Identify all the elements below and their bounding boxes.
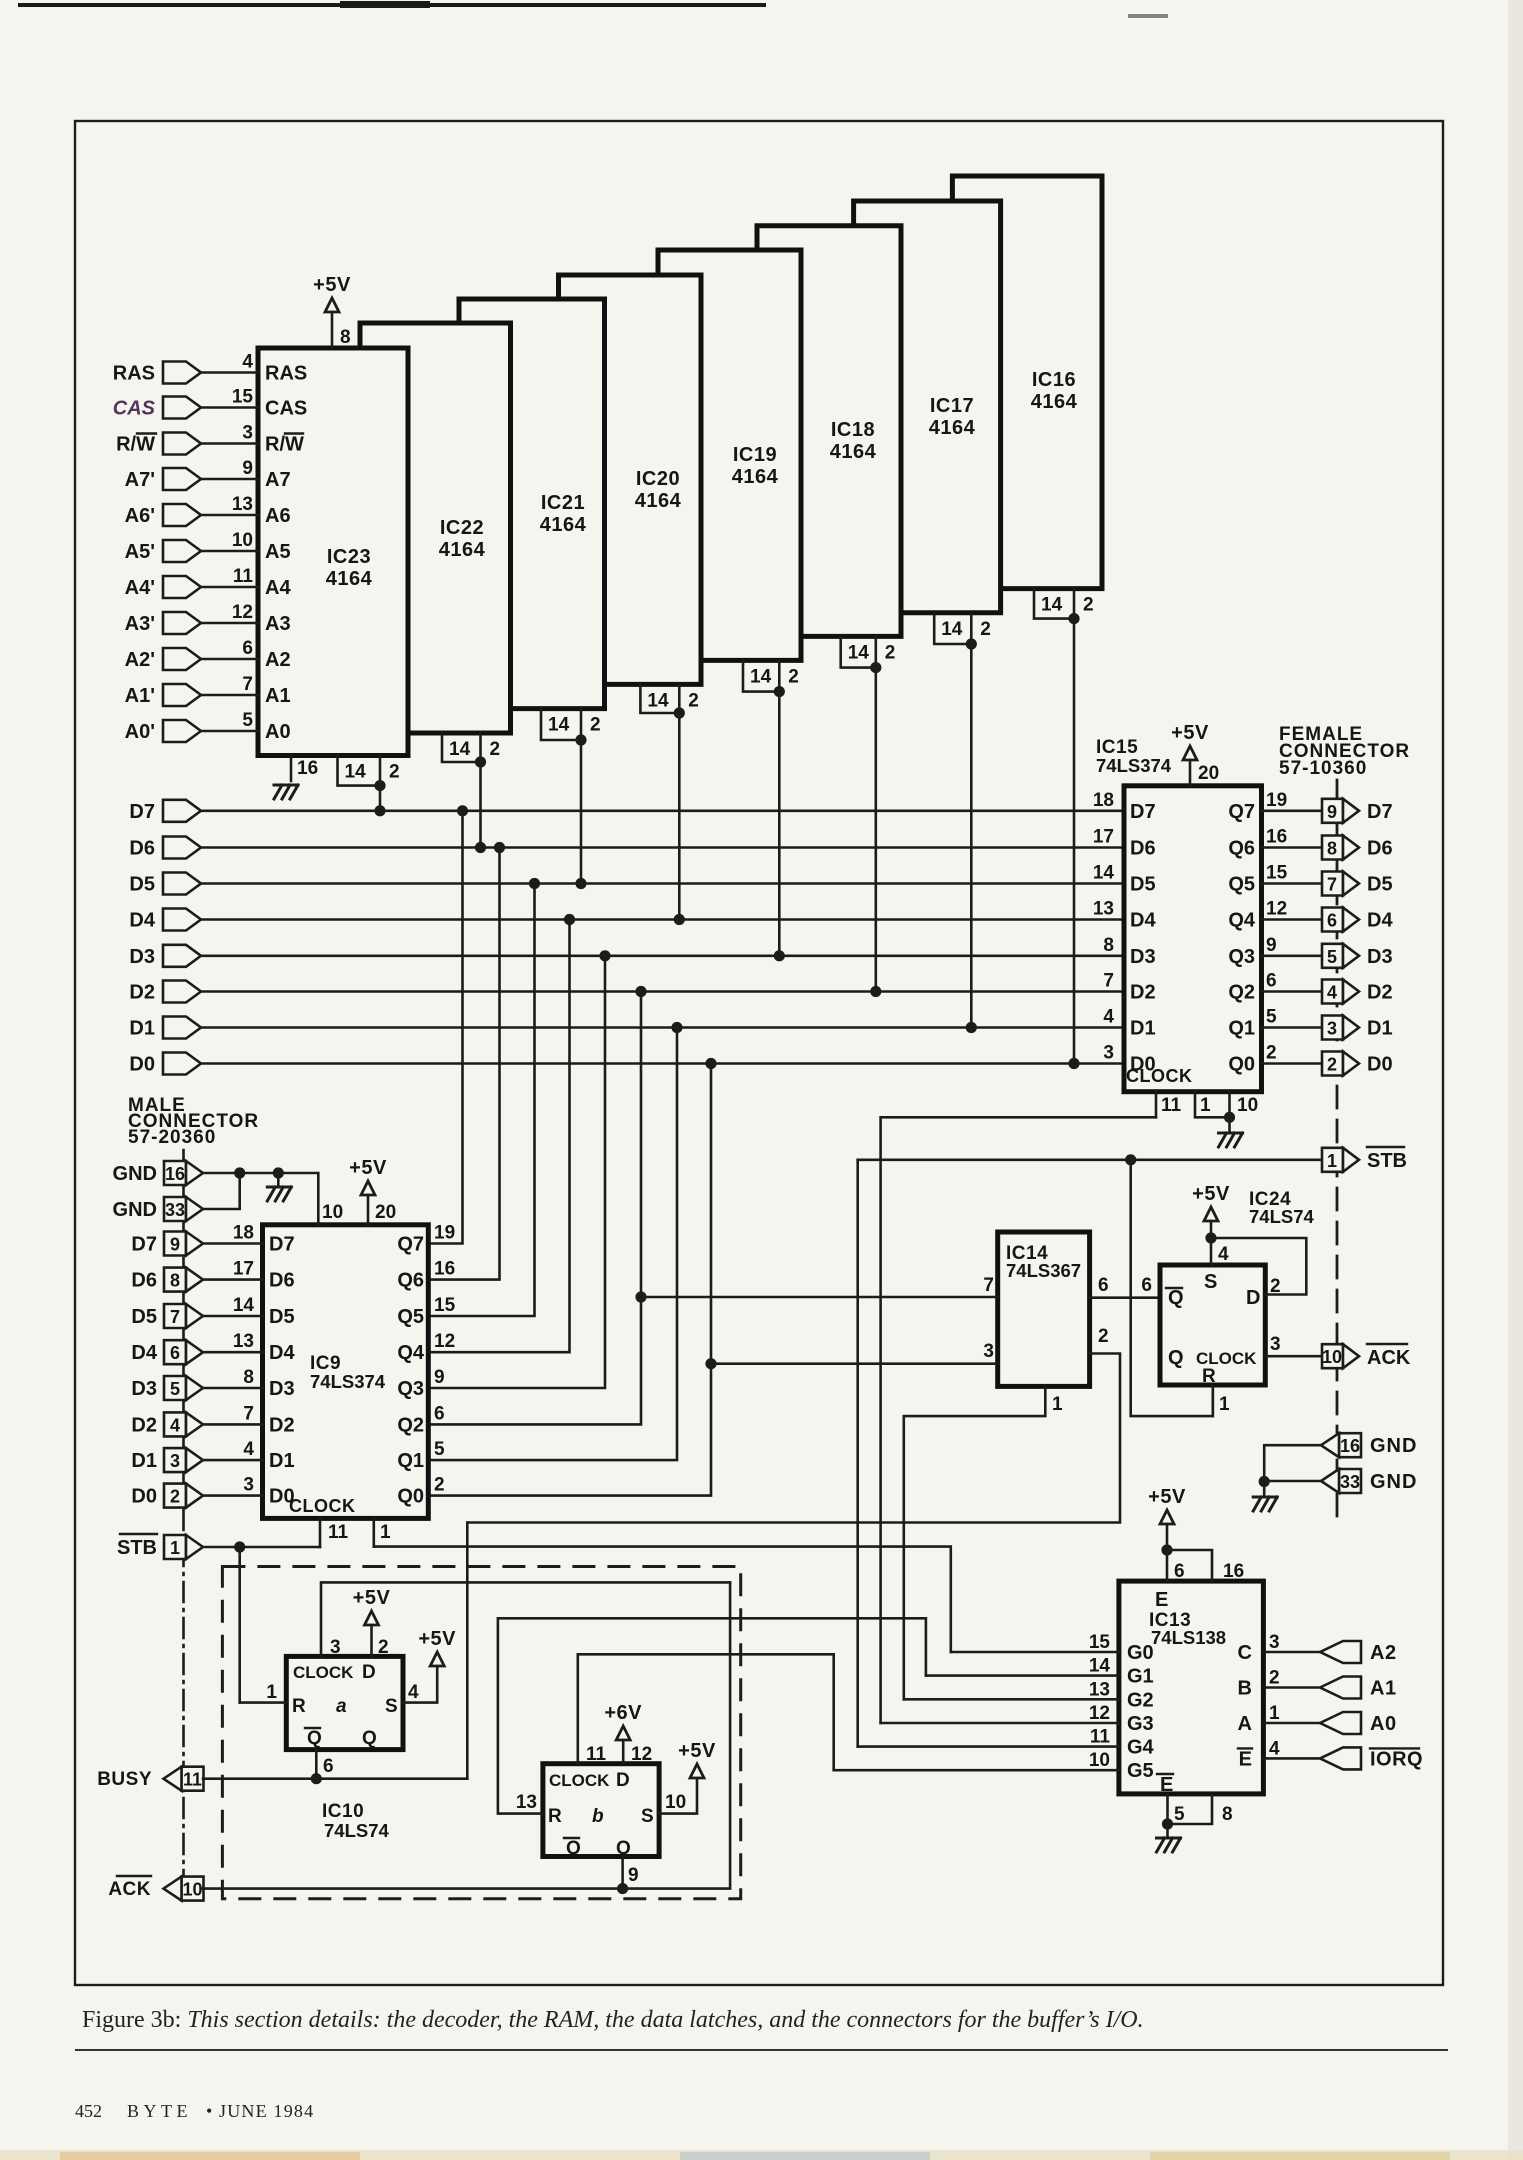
svg-text:13: 13 (232, 494, 253, 515)
wire IC13 G2 line (904, 1698, 1119, 1701)
svg-text:D3: D3 (1367, 946, 1393, 968)
wire A3' to IC23 (201, 622, 258, 625)
svg-text:12: 12 (631, 1744, 652, 1765)
svg-text:D4: D4 (1367, 910, 1393, 932)
input arrow A3' (163, 612, 201, 634)
svg-text:RAS: RAS (265, 363, 307, 385)
svg-text:17: 17 (233, 1259, 254, 1280)
+5V supply IC10b S pin 10 (690, 1764, 704, 1778)
svg-text:D4: D4 (131, 1342, 157, 1364)
svg-text:G3: G3 (1127, 1713, 1154, 1735)
svg-text:20: 20 (375, 1202, 396, 1223)
svg-text:A2: A2 (265, 649, 291, 671)
svg-text:D6: D6 (131, 1270, 157, 1292)
svg-text:6: 6 (1327, 911, 1337, 931)
svg-text:b: b (592, 1806, 604, 1827)
svg-text:12: 12 (1266, 899, 1287, 920)
wire A4' to IC23 (201, 586, 258, 589)
svg-text:7: 7 (243, 1403, 254, 1424)
junction dot Q/ACK (617, 1883, 628, 1894)
male connector arrow D4 pin 6 (164, 1340, 186, 1364)
svg-text:CAS: CAS (265, 398, 307, 420)
svg-text:4: 4 (242, 352, 253, 373)
wire RAS to IC23 (201, 371, 258, 374)
junction dot pin3/Q0 (705, 1358, 716, 1369)
svg-text:Q: Q (362, 1728, 377, 1749)
svg-text:GND: GND (113, 1163, 157, 1185)
+5V supply IC13 pins 6/16 (1160, 1510, 1174, 1524)
svg-text:A7: A7 (265, 469, 291, 491)
svg-text:16: 16 (1223, 1561, 1244, 1582)
IC18 data line junction dot (870, 986, 881, 997)
IC24 pin 1 reset stub (1212, 1385, 1215, 1416)
svg-text:R: R (548, 1806, 562, 1827)
svg-text:1: 1 (1327, 1151, 1337, 1171)
wire IC9 pin1 to IC13 G0 (374, 1547, 951, 1652)
input arrow A2' (163, 648, 201, 670)
svg-text:+5V: +5V (1171, 722, 1209, 744)
wire IC10a Qbar pin 6 to BUSY (315, 1750, 318, 1779)
female connector arrow D1 pin 3 (1322, 1016, 1343, 1040)
wire BUSY riser to IC14 pin2 net (466, 1523, 469, 1779)
IC19 pin 14 stub (743, 660, 779, 691)
female connector arrow STB pin 1 (1322, 1148, 1343, 1172)
svg-text:12: 12 (434, 1331, 455, 1352)
junction dot Q4/D4 (564, 914, 575, 925)
svg-text:8: 8 (340, 327, 351, 348)
connector arrow A0 (1320, 1712, 1361, 1734)
wire data bus D7 (201, 809, 1124, 812)
wire STB to IC9 clock (203, 1546, 320, 1549)
svg-text:14: 14 (233, 1295, 255, 1316)
junction dot Q1/D1 (671, 1022, 682, 1033)
svg-text:E: E (1239, 1748, 1252, 1770)
svg-text:A1: A1 (265, 685, 291, 707)
input arrow A1' (163, 684, 201, 706)
svg-text:74LS74: 74LS74 (324, 1820, 390, 1841)
wire A1' to IC23 (201, 694, 258, 697)
IC21 pin 14 stub (541, 709, 581, 740)
male connector arrow BUSY pin 11 (182, 1767, 204, 1791)
wire data bus D0 (201, 1062, 1124, 1065)
svg-text:D2: D2 (129, 982, 155, 1004)
female connector arrow D6 pin 8 (1322, 836, 1343, 860)
svg-text:7: 7 (242, 674, 253, 695)
svg-text:D0: D0 (131, 1486, 157, 1508)
svg-text:A: A (1238, 1713, 1252, 1735)
svg-text:4: 4 (243, 1439, 254, 1460)
buffer IC14 74LS367 (998, 1232, 1090, 1386)
svg-text:D3: D3 (269, 1378, 295, 1400)
IC21 data line junction dot (575, 878, 586, 889)
footer rule (75, 2049, 1448, 2051)
female connector arrow D4 pin 6 (1322, 908, 1343, 932)
svg-text:•: • (206, 2101, 212, 2121)
svg-text:9: 9 (1266, 935, 1277, 956)
svg-text:3: 3 (1269, 1632, 1280, 1653)
svg-text:20: 20 (1198, 763, 1219, 784)
svg-text:4: 4 (1218, 1244, 1229, 1265)
input arrow D4 (163, 909, 201, 931)
wire D6 to IC9 (203, 1278, 263, 1281)
male connector arrow D0 pin 2 (164, 1484, 186, 1508)
svg-text:19: 19 (1266, 790, 1287, 811)
wire D1 to IC9 (203, 1459, 263, 1462)
IC13 pin 8 tie (1168, 1794, 1213, 1824)
svg-text:14: 14 (941, 619, 963, 640)
svg-text:8: 8 (1222, 1804, 1233, 1825)
svg-text:Q6: Q6 (397, 1270, 424, 1292)
svg-text:12: 12 (1089, 1703, 1110, 1724)
male connector dash-dot boundary (182, 1150, 185, 1906)
svg-text:4164: 4164 (635, 490, 682, 512)
ground symbol IC23 pin 16 (274, 785, 298, 799)
svg-text:74LS374: 74LS374 (1096, 755, 1172, 776)
svg-text:D0: D0 (1367, 1054, 1393, 1076)
svg-text:+5V: +5V (418, 1628, 456, 1650)
latch IC9 74LS374 (263, 1225, 429, 1519)
wire IC15 Q0 to female connector (1262, 1062, 1323, 1065)
RAM IC17 4164 (854, 201, 1001, 613)
svg-text:BYTE: BYTE (127, 2101, 192, 2121)
svg-text:2: 2 (1083, 595, 1094, 616)
IC16 pin 14 stub (1034, 589, 1074, 619)
wire IC9 Q5 to D5 bus (428, 884, 534, 1317)
scan artifact bottom color strip (0, 2150, 1523, 2160)
IC23 pin 2 stub to data line (379, 756, 382, 811)
svg-text:A4': A4' (125, 577, 155, 599)
svg-text:2: 2 (1098, 1326, 1109, 1347)
svg-text:Q5: Q5 (1228, 874, 1255, 896)
svg-text:D7: D7 (129, 801, 155, 823)
svg-text:D6: D6 (1130, 838, 1156, 860)
svg-text:Q: Q (307, 1728, 322, 1749)
male connector arrow GND pin 33 (164, 1197, 186, 1221)
svg-text:Q6: Q6 (1228, 838, 1255, 860)
svg-text:14: 14 (647, 690, 669, 711)
svg-text:9: 9 (628, 1865, 639, 1886)
junction dot Q5/D5 (529, 878, 540, 889)
svg-text:A1': A1' (125, 685, 155, 707)
flip-flop IC10b 74LS74 (543, 1764, 659, 1859)
wire IC9 Q0 to D0 bus (428, 1064, 711, 1496)
svg-text:5: 5 (242, 710, 253, 731)
junction dot IC15 ground (1224, 1112, 1235, 1123)
svg-text:10: 10 (322, 1202, 343, 1223)
wire IC10a clock pin 3 to ACK net (321, 1582, 730, 1656)
IC20 pin junction dot (674, 707, 685, 718)
svg-text:A5': A5' (125, 541, 155, 563)
connector arrow A2 (1320, 1641, 1361, 1663)
svg-text:13: 13 (233, 1331, 254, 1352)
wire D0 to IC9 (203, 1494, 263, 1497)
svg-text:D1: D1 (131, 1450, 157, 1472)
svg-text:3: 3 (983, 1341, 994, 1362)
junction dot IC13 ground (1162, 1818, 1173, 1829)
svg-text:D1: D1 (269, 1450, 295, 1472)
IC17 pin 14 stub (934, 613, 971, 644)
wire D2 to IC9 (203, 1423, 263, 1426)
svg-text:Q4: Q4 (397, 1342, 425, 1364)
IC17 data line junction dot (966, 1022, 977, 1033)
svg-text:D4: D4 (269, 1342, 295, 1364)
IC15 pin 10 ground stub (1228, 1092, 1231, 1118)
male connector arrow STB pin 1 (164, 1535, 186, 1559)
male connector arrow D3 pin 5 (164, 1376, 186, 1400)
svg-text:CLOCK: CLOCK (293, 1663, 354, 1682)
wire IC13 G4 line (858, 1745, 1119, 1748)
svg-text:+5V: +5V (313, 274, 351, 296)
svg-text:6: 6 (242, 638, 253, 659)
svg-text:13: 13 (1093, 899, 1114, 920)
page border frame (75, 121, 1443, 1985)
wire IC13 B to A1 arrow (1263, 1686, 1320, 1689)
wire IC10b Q pin 9 to ACK (621, 1857, 624, 1889)
input arrow RAS (163, 362, 201, 384)
input arrow CAS (163, 397, 201, 419)
IC23 pin 14 stub (338, 756, 381, 786)
svg-text:9: 9 (170, 1235, 180, 1255)
IC16 pin junction dot (1068, 613, 1079, 624)
svg-text:74LS138: 74LS138 (1151, 1627, 1226, 1648)
wire GND16 to IC9 pin 10 (203, 1173, 318, 1225)
flip-flop IC10a 74LS74 (286, 1656, 403, 1749)
+5V supply arrow above IC23 pin 8 (325, 298, 339, 312)
ground symbol right GND (1263, 1482, 1266, 1496)
IC18 pin 2 stub to data line (874, 636, 877, 991)
svg-text:D0: D0 (129, 1054, 155, 1076)
svg-text:a: a (336, 1696, 347, 1717)
wire IC10b R pin 13 to IC13 G1 (498, 1618, 926, 1813)
svg-text:2: 2 (170, 1487, 180, 1507)
svg-text:4: 4 (1269, 1738, 1280, 1759)
svg-text:JUNE 1984: JUNE 1984 (219, 2101, 314, 2121)
svg-text:Q: Q (1168, 1347, 1184, 1369)
svg-text:13: 13 (1089, 1679, 1110, 1700)
IC21 pin junction dot (575, 734, 586, 745)
svg-text:18: 18 (233, 1223, 254, 1244)
ground symbol IC9 (277, 1173, 280, 1185)
svg-text:2: 2 (434, 1475, 445, 1496)
wire A0' to IC23 (201, 730, 258, 733)
svg-text:D7: D7 (1367, 801, 1393, 823)
svg-text:19: 19 (434, 1223, 455, 1244)
svg-text:Q2: Q2 (1228, 982, 1255, 1004)
svg-text:D3: D3 (129, 946, 155, 968)
junction dot IC24 S/D tie (1205, 1232, 1216, 1243)
svg-text:D7: D7 (269, 1234, 295, 1256)
wire IC15 Q5 to female connector (1262, 882, 1323, 885)
RAM IC22 4164 (360, 323, 511, 733)
wire GND33 join (203, 1173, 240, 1209)
svg-text:1: 1 (1052, 1394, 1063, 1415)
svg-text:4164: 4164 (326, 568, 373, 590)
IC16 data line junction dot (1068, 1058, 1079, 1069)
svg-text:C: C (1238, 1642, 1252, 1664)
svg-text:10: 10 (1089, 1750, 1110, 1771)
svg-text:11: 11 (328, 1522, 349, 1543)
IC23 pin junction dot (374, 780, 385, 791)
svg-text:A0: A0 (1370, 1713, 1397, 1735)
svg-text:4: 4 (1327, 983, 1337, 1003)
svg-text:4164: 4164 (830, 441, 877, 463)
svg-text:D3: D3 (1130, 946, 1156, 968)
wire data bus D1 (201, 1026, 1124, 1029)
svg-text:2: 2 (788, 666, 799, 687)
svg-text:74LS74: 74LS74 (1249, 1206, 1315, 1227)
input arrow D7 (163, 800, 201, 822)
decoder IC13 74LS138 (1119, 1581, 1264, 1796)
svg-text:IORQ: IORQ (1370, 1748, 1423, 1770)
wire data bus D3 (201, 954, 1124, 957)
wire IC14 pin 7 to Q2 riser (641, 1296, 998, 1299)
IC20 data line junction dot (674, 914, 685, 925)
svg-text:6: 6 (434, 1403, 445, 1424)
svg-text:D5: D5 (1367, 874, 1393, 896)
svg-text:9: 9 (1327, 802, 1337, 822)
svg-text:D: D (616, 1770, 630, 1791)
junction dot Q6/D6 (494, 842, 505, 853)
svg-text:4164: 4164 (1031, 391, 1078, 413)
svg-text:2: 2 (980, 619, 991, 640)
svg-text:8: 8 (243, 1367, 254, 1388)
wire IC13 E to IORQ arrow (1263, 1757, 1320, 1760)
svg-text:D2: D2 (1130, 982, 1156, 1004)
svg-text:16: 16 (1340, 1436, 1360, 1456)
svg-text:Q2: Q2 (397, 1414, 424, 1436)
svg-text:2: 2 (1266, 1043, 1277, 1064)
svg-text:6: 6 (323, 1756, 334, 1777)
wire D7 to IC9 (203, 1242, 263, 1245)
svg-text:+6V: +6V (604, 1702, 642, 1724)
svg-text:1: 1 (1269, 1703, 1280, 1724)
wire IC10a R pin 1 to STB (240, 1701, 287, 1704)
svg-text:57-10360: 57-10360 (1279, 758, 1367, 779)
svg-text:57-20360: 57-20360 (128, 1127, 216, 1148)
svg-text:B: B (1238, 1678, 1252, 1700)
svg-text:10: 10 (665, 1792, 686, 1813)
svg-text:3: 3 (1103, 1043, 1114, 1064)
female connector arrow D0 pin 2 (1322, 1052, 1343, 1076)
svg-text:IC23: IC23 (327, 546, 371, 568)
+6V supply IC10b D pin 12 (616, 1726, 630, 1740)
wire IC13 C to A2 arrow (1263, 1651, 1320, 1654)
svg-text:14: 14 (848, 642, 870, 663)
wire IC13 G5 line (834, 1769, 1119, 1772)
input arrow A5' (163, 540, 201, 562)
svg-text:13: 13 (516, 1792, 537, 1813)
svg-text:14: 14 (1093, 863, 1115, 884)
svg-text:D5: D5 (1130, 874, 1156, 896)
svg-text:16: 16 (297, 758, 318, 779)
wire D3 to IC9 (203, 1387, 263, 1390)
svg-text:+5V: +5V (353, 1587, 391, 1609)
IC19 data line junction dot (774, 950, 785, 961)
svg-text:D5: D5 (269, 1306, 295, 1328)
svg-text:1: 1 (170, 1538, 180, 1558)
svg-text:D3: D3 (131, 1378, 157, 1400)
junction dot pin7/Q2 (635, 1291, 646, 1302)
wire IC13 pin16 tie (1167, 1550, 1212, 1581)
svg-text:G1: G1 (1127, 1666, 1154, 1688)
svg-text:+5V: +5V (349, 1157, 387, 1179)
wire IC14 pin 1 to IC13 G2 (904, 1386, 1046, 1699)
svg-text:GND: GND (1370, 1435, 1417, 1457)
svg-text:D5: D5 (131, 1306, 157, 1328)
IC18 pin 14 stub (841, 636, 876, 667)
male connector arrow D6 pin 8 (164, 1268, 186, 1292)
svg-text:A6: A6 (265, 505, 291, 527)
svg-text:2: 2 (1269, 1668, 1280, 1689)
svg-text:9: 9 (434, 1367, 445, 1388)
svg-text:Q0: Q0 (397, 1486, 424, 1508)
svg-text:D6: D6 (269, 1270, 295, 1292)
svg-text:11: 11 (586, 1744, 607, 1765)
svg-text:14: 14 (1089, 1656, 1111, 1677)
svg-text:2: 2 (885, 642, 896, 663)
svg-text:4164: 4164 (732, 466, 779, 488)
svg-text:33: 33 (165, 1200, 185, 1220)
svg-text:5: 5 (1174, 1804, 1185, 1825)
svg-text:Q: Q (566, 1838, 581, 1859)
wire IC14 pin 2 to BUSY net (467, 1354, 1120, 1523)
female connector arrow D5 pin 7 (1322, 872, 1343, 896)
svg-text:+5V: +5V (678, 1740, 716, 1762)
svg-text:2: 2 (490, 739, 501, 760)
wire A7' to IC23 (201, 478, 258, 481)
female connector arrow ACK pin 10 (1322, 1344, 1343, 1368)
svg-text:D6: D6 (1367, 838, 1393, 860)
IC15 pin 1 stub (1195, 1092, 1230, 1118)
svg-text:R: R (292, 1696, 306, 1717)
input arrow A0' (163, 720, 201, 742)
svg-text:9: 9 (242, 458, 253, 479)
wire STB down to IC24 R (1131, 1160, 1213, 1416)
svg-text:E: E (1155, 1589, 1168, 1611)
IC22 pin 14 stub (442, 733, 481, 762)
svg-text:12: 12 (232, 602, 253, 623)
svg-text:3: 3 (170, 1451, 180, 1471)
svg-text:7: 7 (170, 1307, 180, 1327)
svg-text:Q1: Q1 (397, 1450, 424, 1472)
svg-text:5: 5 (1266, 1007, 1277, 1028)
svg-text:Q4: Q4 (1228, 910, 1256, 932)
junction dot Qbar/BUSY (311, 1773, 322, 1784)
wire GND16/33 join (1264, 1445, 1321, 1482)
IC22 data line junction dot (475, 842, 486, 853)
svg-text:STB: STB (1367, 1150, 1407, 1172)
svg-text:D5: D5 (129, 874, 155, 896)
IC19 pin 2 stub to data line (778, 660, 781, 955)
svg-text:4164: 4164 (439, 539, 486, 561)
svg-text:4164: 4164 (540, 514, 587, 536)
IC22 pin junction dot (475, 756, 486, 767)
svg-text:6: 6 (1141, 1275, 1152, 1296)
svg-text:D7: D7 (131, 1234, 157, 1256)
wire CAS to IC23 (201, 406, 258, 409)
svg-text:GND: GND (1370, 1471, 1417, 1493)
wire IC13 G3 line (881, 1722, 1119, 1725)
IC18 pin junction dot (870, 662, 881, 673)
female connector arrow D2 pin 4 (1322, 980, 1343, 1004)
wire A2' to IC23 (201, 658, 258, 661)
svg-text:1: 1 (1200, 1095, 1211, 1116)
svg-text:8: 8 (1103, 935, 1114, 956)
+5V supply IC9 pin 20 (361, 1181, 375, 1195)
svg-text:Q3: Q3 (1228, 946, 1255, 968)
+5V supply IC15 pin 20 (1183, 746, 1197, 760)
svg-text:IC16: IC16 (1032, 369, 1076, 391)
